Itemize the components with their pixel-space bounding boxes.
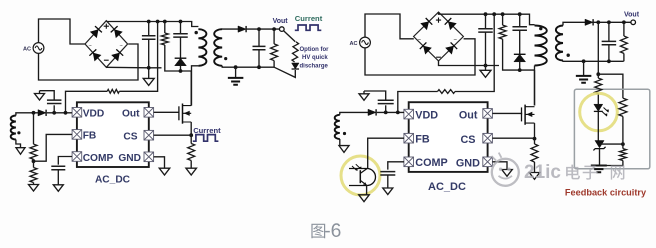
- wire GND pin to ground (right): [492, 162, 507, 170]
- ground FB divider (left): [29, 185, 39, 192]
- ground VDD cap (left): [35, 91, 45, 100]
- aux winding L1 (left): [11, 116, 16, 140]
- discharge resistor R7 (left): [292, 42, 299, 63]
- watermark logo 21ic: [492, 153, 519, 186]
- ground bulk cap (left): [143, 68, 154, 86]
- feedback lower resistor R13 (right): [600, 149, 627, 166]
- CS resistor R14 (right): [531, 139, 538, 173]
- junction dot snubber diode anode (left): [179, 69, 183, 73]
- FB divider upper resistor R3 (left): [30, 113, 37, 159]
- wire secondary top to output diode (right): [563, 22, 585, 25]
- series resistor opto LED R11 (right): [595, 74, 602, 104]
- svg-text:FB: FB: [83, 131, 97, 142]
- ground aux winding (left): [16, 148, 25, 155]
- watermark text 21ic dianziwang: [524, 162, 624, 183]
- wire COMP pin to cap (right): [388, 162, 404, 170]
- startup resistor R8 (right): [438, 90, 456, 94]
- ground CS resistor (right): [529, 173, 540, 180]
- phase dot T1 primary (left): [195, 31, 198, 34]
- phase dot T2 secondary (right): [567, 54, 570, 57]
- phase dot T2 primary (right): [539, 27, 542, 30]
- shunt regulator zener D9 (right): [593, 141, 605, 166]
- MOSFET Q1 (left): [179, 104, 191, 124]
- junction dots VDD node (left): [52, 111, 67, 115]
- junction dot source node (right): [533, 137, 537, 141]
- wire secondary bottom rail (right): [563, 60, 624, 63]
- transformer T2 primary winding (right): [535, 26, 547, 66]
- wire AC hot to bridge left vertex (left): [39, 19, 86, 44]
- wire bridge minus rail (left): [106, 66, 161, 69]
- junction dot bulk cap minus (left): [147, 66, 151, 70]
- junction dots on top rail (left): [147, 20, 183, 24]
- transformer T1 secondary winding (left): [214, 29, 222, 66]
- junction dot snubber diode anode (right): [518, 68, 522, 72]
- earth ground secondary (right): [576, 61, 592, 82]
- wire VDD diode to pin (left): [47, 112, 72, 114]
- op IC U2 body (right): [409, 102, 488, 172]
- snubber capacitor C7 (right): [512, 14, 527, 54]
- wire startup feed from rail (right): [455, 14, 494, 91]
- wire between feedback resistors (right): [622, 116, 624, 148]
- earth ground feedback (right): [591, 166, 607, 173]
- wire opto emitter to ground (right): [366, 186, 368, 195]
- feedback upper resistor R12 (right): [619, 98, 627, 116]
- pin COMP U1 (left): [72, 152, 82, 162]
- CS resistor R5 (left): [188, 135, 195, 168]
- output capacitor C5 (left): [253, 29, 266, 67]
- VDD capacitor C9 (right): [364, 91, 394, 112]
- waveform current bottom (left): [193, 135, 219, 142]
- ground optocoupler emitter (right): [359, 195, 370, 202]
- svg-text:Feedback circuitry: Feedback circuitry: [565, 188, 647, 198]
- junction dot source node (left): [189, 133, 193, 137]
- junction dot bulk cap minus (right): [484, 64, 488, 68]
- terminal Vout (left): [280, 27, 285, 32]
- startup resistor R1 (left): [107, 89, 119, 93]
- svg-text:~: ~: [89, 44, 92, 50]
- wire FB pin to opto collector (right): [368, 138, 404, 168]
- pin FB U2 (right): [404, 133, 414, 143]
- bulk capacitor C6 (right): [478, 14, 493, 65]
- phase dot aux winding (right): [343, 132, 346, 135]
- highlight circle opto LED (right): [580, 93, 618, 131]
- AC source V2 (right): [360, 37, 371, 48]
- svg-text:FB: FB: [415, 134, 430, 146]
- svg-text:COMP: COMP: [415, 157, 447, 169]
- svg-text:Vout: Vout: [273, 18, 289, 25]
- wire AC hot to bridge left vertex (right): [365, 14, 414, 39]
- svg-text:HV quick: HV quick: [302, 55, 328, 61]
- wire drain up (left): [190, 71, 192, 106]
- junction dot output gnd stem (left): [234, 65, 238, 69]
- svg-text:~: ~: [120, 44, 123, 50]
- svg-text:COMP: COMP: [83, 153, 114, 164]
- ground GND pin (left): [159, 168, 170, 175]
- wire AC return to bridge right vertex (right): [365, 39, 475, 75]
- phase dot aux winding (left): [17, 131, 20, 134]
- COMP capacitor C4 (left): [51, 166, 65, 185]
- discharge diode D4 (left): [292, 63, 299, 69]
- wire zener to right branch (right): [600, 143, 623, 145]
- svg-text:VDD: VDD: [83, 108, 105, 119]
- wire startup feed from rail (left): [119, 22, 157, 92]
- pin COMP U2 (right): [404, 157, 414, 167]
- svg-text:CS: CS: [123, 131, 137, 142]
- terminal Vout (right): [631, 20, 636, 25]
- junction dots top rail (right): [484, 12, 522, 16]
- pin VDD U1 (left): [72, 108, 82, 118]
- AC source V1 (left): [33, 43, 44, 54]
- load resistor R6 (left): [271, 29, 278, 67]
- bulk capacitor C1 (left): [142, 22, 156, 68]
- wire CS pin to source (left): [154, 134, 192, 136]
- wire aux bottom to ground (left): [16, 140, 21, 148]
- wire aux top to VDD diode (left): [16, 113, 38, 116]
- junction dot divider mid (right): [621, 142, 625, 146]
- VDD capacitor C3 (left): [40, 91, 62, 113]
- wire drain up (right): [534, 70, 536, 105]
- pin GND U2 (right): [483, 157, 493, 167]
- junction dot feedback node (right): [596, 72, 600, 76]
- svg-text:Option for: Option for: [300, 47, 330, 53]
- wire source down to CS node (right): [534, 123, 536, 139]
- svg-text:Current: Current: [193, 126, 221, 135]
- transformer T2 secondary winding (right): [556, 26, 563, 61]
- ground GND pin (right): [502, 170, 513, 177]
- wire output rail to Vout (left): [247, 28, 280, 30]
- junction dot output cap bottom (left): [257, 65, 261, 69]
- FB divider lower resistor R4 (left): [30, 159, 37, 184]
- ground COMP cap (left): [53, 185, 63, 192]
- svg-text:AC_DC: AC_DC: [95, 174, 131, 185]
- optocoupler LED D8 (right): [594, 104, 609, 140]
- wire source down to CS node (left): [190, 122, 192, 135]
- svg-text:CS: CS: [461, 134, 476, 146]
- svg-text:~: ~: [454, 38, 458, 44]
- svg-text:discharge: discharge: [300, 63, 329, 69]
- wire secondary bottom rail (left): [222, 66, 274, 67]
- output diode D3 (left): [238, 26, 246, 32]
- pin GND U1 (left): [144, 152, 154, 162]
- wire COMP pin to cap (left): [58, 157, 72, 165]
- svg-text:Current: Current: [295, 14, 323, 23]
- snubber diode D2 (left): [175, 58, 187, 71]
- op IC U1 body (left): [77, 102, 149, 167]
- wire aux bottom to ground (right): [339, 139, 341, 146]
- junction dot output cap bottom (right): [607, 59, 611, 63]
- svg-text:21ic: 21ic: [524, 162, 561, 183]
- snubber capacitor C2 (left): [173, 22, 188, 58]
- ground COMP cap (right): [383, 188, 393, 195]
- optocoupler phototransistor OC1 (right): [349, 164, 376, 185]
- COMP capacitor C10 (right): [380, 172, 395, 188]
- pin CS U2 (right): [483, 133, 493, 143]
- svg-text:Vout: Vout: [624, 11, 640, 18]
- wire FB tap to FB pin (left): [34, 134, 73, 161]
- wire DC+ top rail (left): [106, 22, 198, 27]
- ground VDD cap (right): [359, 91, 369, 100]
- junction dot FB tap (left): [32, 159, 36, 163]
- highlight circle optocoupler (right): [341, 156, 380, 195]
- wire Out pin to gate (left): [154, 111, 179, 113]
- wire feedback node to right branch (right): [598, 74, 623, 98]
- discharge branch wire top diagonal (left): [284, 31, 296, 42]
- snubber resistor R9 (right): [499, 14, 534, 70]
- VDD diode D5 (right): [368, 109, 376, 115]
- discharge branch wire bottom diagonal (left): [274, 67, 295, 77]
- bridge rectifier BR2 (right): [414, 12, 464, 61]
- ground CS resistor (left): [186, 168, 197, 175]
- junction dots VDD node (right): [384, 111, 400, 115]
- svg-text:Out: Out: [459, 109, 478, 121]
- junction dot FB divider top (left): [32, 111, 36, 115]
- svg-text:AC: AC: [350, 41, 358, 47]
- wire output rail to Vout (right): [594, 21, 631, 23]
- output diode D7 (right): [585, 19, 593, 25]
- wire CS pin to source (right): [492, 137, 534, 139]
- wire output to feedback network (right): [597, 22, 599, 74]
- waveform current top (left): [295, 25, 322, 30]
- ground bulk cap (right): [480, 66, 491, 78]
- wire AC return to bridge right vertex (left): [39, 44, 139, 80]
- wire primary bottom to drain (left): [192, 66, 199, 106]
- svg-text:AC: AC: [23, 47, 31, 53]
- pin CS U1 (left): [144, 130, 154, 140]
- svg-text:AC_DC: AC_DC: [428, 181, 466, 193]
- earth ground secondary (left): [228, 67, 244, 85]
- junction dots output rail (left): [257, 27, 276, 31]
- wire aux top to VDD diode (right): [340, 112, 368, 114]
- pin Out U1 (left): [144, 108, 154, 118]
- svg-text:VDD: VDD: [415, 109, 438, 121]
- wire DC+ top rail (right): [439, 12, 535, 25]
- junction dots output rail (right): [596, 20, 625, 24]
- wire startup resistor to VDD node (right): [398, 92, 438, 113]
- aux winding L2 (right): [335, 115, 340, 139]
- svg-text:GND: GND: [118, 153, 141, 164]
- pin FB U1 (left): [72, 130, 82, 140]
- wire VDD diode to pin (right): [377, 111, 404, 113]
- svg-text:GND: GND: [456, 157, 480, 169]
- pin Out U2 (right): [483, 109, 493, 119]
- transformer T1 primary winding (left): [198, 29, 206, 66]
- wire Out pin to gate (right): [492, 113, 521, 114]
- ground aux winding (right): [339, 146, 349, 153]
- wire primary bottom to drain (right): [534, 66, 536, 106]
- wire bridge minus rail (right): [439, 61, 500, 66]
- svg-text:Out: Out: [122, 108, 140, 119]
- feedback box (right): [574, 89, 649, 169]
- svg-text:~: ~: [418, 38, 422, 44]
- MOSFET Q2 (right): [522, 105, 535, 125]
- output capacitor C8 (right): [602, 22, 617, 61]
- feedback divider top resistor R10 (right): [620, 22, 627, 61]
- figure caption 图-6: [311, 224, 325, 239]
- snubber resistor R2 (left): [161, 22, 191, 72]
- wire startup resistor to VDD node (left): [66, 91, 108, 113]
- bridge rectifier BR1 (left): [85, 21, 128, 68]
- VDD diode D1 (left): [38, 110, 46, 116]
- pin VDD U2 (right): [404, 109, 414, 119]
- wire GND pin to ground (left): [154, 157, 165, 168]
- phase dot T1 secondary (left): [224, 57, 227, 60]
- junction dot earth stem (right): [582, 59, 586, 63]
- snubber diode D6 (right): [514, 54, 526, 70]
- wire secondary top to output diode (left): [222, 28, 238, 30]
